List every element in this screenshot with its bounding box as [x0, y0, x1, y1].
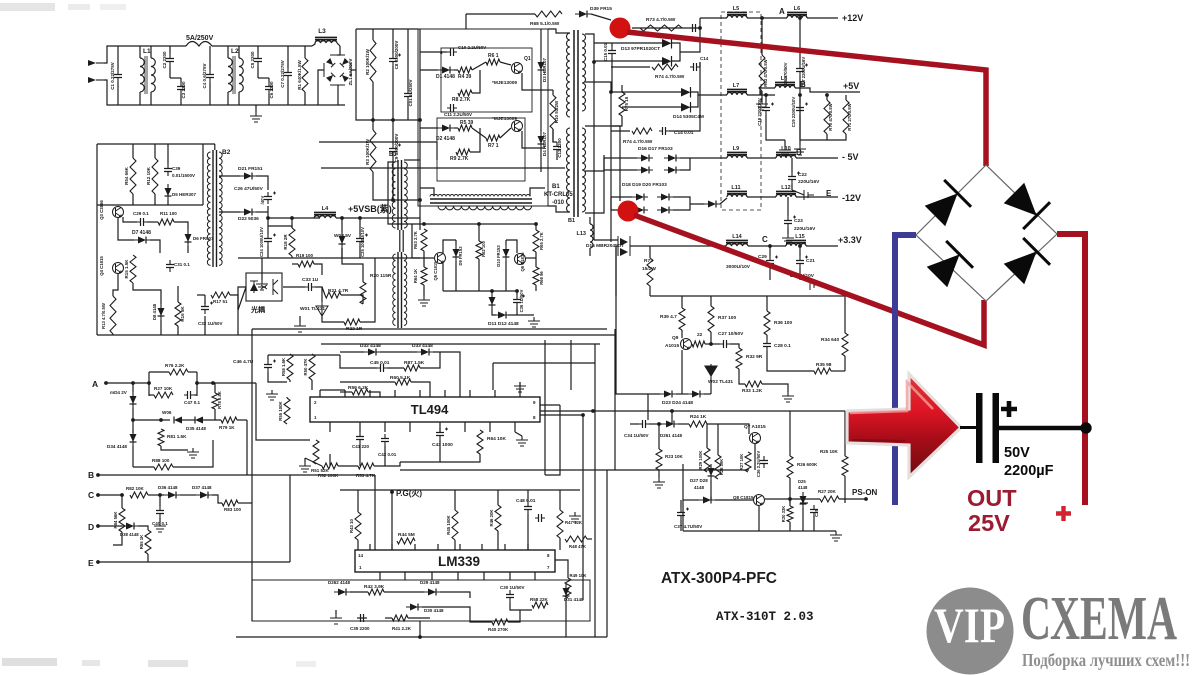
- resistor R26: [787, 456, 793, 478]
- wire: [150, 240, 160, 253]
- svg-text:R74 4.7/0.5W: R74 4.7/0.5W: [623, 139, 653, 145]
- red wire from node2 to bridge bottom: [634, 215, 984, 345]
- svg-text:R60 5.1K: R60 5.1K: [390, 375, 411, 381]
- svg-text:D16 D17 FR103: D16 D17 FR103: [638, 146, 673, 152]
- svg-text:-12V: -12V: [842, 193, 861, 203]
- capacitor C22b: [804, 190, 814, 200]
- wire: [227, 92, 229, 105]
- diode: [538, 136, 545, 144]
- wire: [341, 218, 343, 232]
- wire: [611, 196, 632, 198]
- svg-text:L11: L11: [731, 185, 740, 191]
- wire pin stub: [404, 572, 406, 580]
- resistor R70: [824, 100, 830, 134]
- wire pin stub: [329, 422, 331, 432]
- resistor R6: [486, 59, 500, 65]
- diode: [503, 249, 510, 257]
- capacitor C14: [659, 130, 669, 132]
- wire: [113, 274, 118, 296]
- svg-text:R62 100: R62 100: [481, 240, 486, 257]
- junction: [477, 222, 481, 226]
- wire: [256, 176, 268, 190]
- wire: [611, 197, 632, 210]
- svg-text:D8 4148: D8 4148: [152, 303, 157, 320]
- wire: [478, 259, 480, 291]
- drive stage enclosure inner A: [441, 48, 532, 112]
- inductor: [776, 156, 796, 159]
- diode D39: [579, 11, 587, 18]
- wire: [680, 520, 682, 531]
- svg-text:R27 20K: R27 20K: [818, 489, 837, 494]
- svg-text:R18 2R: R18 2R: [283, 234, 288, 250]
- transformer B1 core: [574, 30, 578, 217]
- wire D: [98, 525, 122, 527]
- wire: [789, 478, 791, 503]
- wire: [710, 296, 712, 306]
- svg-text:L10: L10: [781, 146, 790, 152]
- diode D29: [428, 589, 436, 596]
- wire: [337, 43, 340, 46]
- svg-text:L7: L7: [733, 83, 739, 89]
- wire r33 gnd: [762, 384, 788, 392]
- wire: [392, 156, 394, 200]
- wire: [491, 291, 493, 293]
- bridge diode bottom-left: [924, 241, 973, 290]
- wire: [133, 283, 161, 304]
- resistor R17: [211, 292, 230, 298]
- svg-text:L3: L3: [318, 28, 326, 35]
- inductor: [727, 156, 747, 159]
- bridge rectifier frame: [916, 165, 1057, 301]
- wire driver top bus: [412, 223, 536, 225]
- capacitor C35: [357, 617, 367, 619]
- svg-text:R82 10K: R82 10K: [126, 486, 145, 491]
- svg-text:L5: L5: [733, 6, 739, 12]
- capacitor C36: [763, 456, 765, 468]
- wire: [704, 393, 711, 395]
- svg-text:R2 100K/1W: R2 100K/1W: [365, 48, 370, 75]
- wire: [789, 411, 791, 456]
- wire: [340, 381, 395, 383]
- junction: [290, 216, 294, 220]
- svg-text:R53 4.7K: R53 4.7K: [356, 473, 376, 478]
- diode D22: [244, 209, 252, 216]
- wire q5 base: [412, 224, 434, 258]
- svg-text:R7 1: R7 1: [488, 143, 499, 149]
- wire: [337, 85, 339, 105]
- wire: [422, 607, 492, 622]
- AC plug prong L: [88, 60, 96, 66]
- svg-text:R35 98: R35 98: [816, 362, 832, 368]
- wire: [611, 43, 613, 46]
- wire secondary tap5: [585, 171, 604, 213]
- wire w02: [710, 380, 712, 394]
- wire: [540, 74, 542, 132]
- svg-text:L13: L13: [577, 231, 586, 237]
- resistor R81: [158, 429, 164, 446]
- resistor R13: [110, 296, 116, 334]
- ground: [779, 146, 791, 156]
- wire: [350, 591, 368, 593]
- diode: [130, 434, 137, 442]
- svg-text:+12V: +12V: [842, 13, 863, 23]
- resistor R10: [550, 95, 556, 129]
- svg-text:ATX-300P4-PFC: ATX-300P4-PFC: [661, 570, 777, 587]
- wire: [341, 248, 343, 258]
- wire: [527, 490, 529, 502]
- wire: [658, 470, 660, 478]
- wire: [791, 184, 793, 190]
- dashed enclosure output chokes: [721, 12, 761, 210]
- svg-text:VIP: VIP: [934, 597, 1005, 653]
- wire: [705, 343, 720, 345]
- svg-text:D22 5036: D22 5036: [238, 216, 259, 222]
- diode D6: [185, 234, 192, 242]
- svg-text:C35: C35: [814, 508, 819, 516]
- capacitor C11: [447, 107, 457, 109]
- resistor R79: [221, 417, 237, 423]
- wire: [359, 444, 361, 466]
- resistor R15: [130, 255, 136, 283]
- svg-text:A1015: A1015: [665, 343, 679, 349]
- resistor R47: [557, 510, 563, 538]
- svg-text:-010: -010: [552, 200, 565, 206]
- capacitor C34: [639, 423, 649, 425]
- svg-text:R42 3.9K: R42 3.9K: [364, 584, 385, 590]
- wire: [681, 296, 683, 308]
- junction: [358, 216, 362, 220]
- svg-text:C3 2200: C3 2200: [181, 81, 186, 99]
- junction: [418, 635, 422, 639]
- ground: [794, 145, 806, 155]
- wire: [621, 85, 623, 92]
- wire: [113, 532, 122, 545]
- svg-text:R19 100: R19 100: [296, 253, 314, 258]
- capacitor C39: [167, 164, 169, 176]
- svg-text:R16 5K: R16 5K: [180, 306, 185, 322]
- wire: [392, 120, 394, 144]
- wire: [139, 92, 141, 105]
- wire: [720, 198, 727, 204]
- wire pin stub: [419, 390, 421, 397]
- wire: [454, 490, 456, 510]
- wire: [311, 380, 313, 390]
- inductor: [776, 195, 796, 198]
- svg-text:C1 0.22/275V: C1 0.22/275V: [110, 62, 115, 90]
- wire branch y67: [611, 66, 650, 68]
- svg-text:A: A: [92, 379, 98, 389]
- wire: [761, 18, 763, 55]
- diode: [498, 312, 506, 319]
- svg-text:14: 14: [358, 553, 364, 558]
- svg-text:/40V: /40V: [260, 195, 265, 204]
- wire: [535, 252, 537, 267]
- wire startup right: [202, 144, 204, 205]
- capacitor C3: [180, 82, 182, 94]
- capacitor C6: [268, 82, 270, 94]
- resistor R59: [352, 389, 368, 395]
- diode: [453, 249, 460, 257]
- svg-text:C9 3300/200V: C9 3300/200V: [394, 134, 399, 163]
- svg-text:C5 2200: C5 2200: [250, 51, 255, 69]
- wire: [150, 92, 152, 105]
- ground: [256, 280, 268, 290]
- resistor R41: [392, 615, 408, 621]
- svg-text:L15: L15: [795, 234, 804, 240]
- wire pin stub: [489, 422, 491, 432]
- wire: [508, 307, 517, 315]
- inductor: [239, 58, 243, 92]
- red node dot 2: [618, 201, 639, 222]
- wire: [423, 285, 425, 296]
- wire opto out: [283, 286, 305, 288]
- ground: [250, 112, 262, 122]
- svg-text:5A/250V: 5A/250V: [186, 35, 214, 42]
- wire: [553, 129, 557, 142]
- wire +12V to L5: [700, 17, 727, 19]
- wire tl494 right2: [540, 414, 583, 416]
- svg-text:C31 0.1: C31 0.1: [174, 262, 190, 267]
- wire E: [98, 561, 148, 563]
- capacitor C28: [766, 339, 768, 351]
- wire opto in: [238, 287, 246, 310]
- junction: [158, 493, 162, 497]
- resistor R82: [130, 492, 148, 498]
- junction: [371, 118, 375, 122]
- wire: [374, 462, 400, 466]
- drive stage enclosure outer: [418, 29, 548, 206]
- wire: [472, 70, 480, 93]
- capacitor C45: [377, 367, 387, 369]
- wire: [230, 295, 238, 310]
- diode D27: [708, 468, 715, 476]
- wire: [132, 144, 134, 158]
- svg-text:PS-ON: PS-ON: [852, 488, 878, 497]
- resistor R32: [736, 348, 742, 369]
- wire: [455, 240, 457, 245]
- capacitor output plate right: [993, 393, 1000, 463]
- ground: [782, 234, 794, 244]
- wire: [196, 372, 198, 396]
- wire: [669, 62, 700, 131]
- wire: [333, 591, 335, 593]
- svg-text:R27 10K: R27 10K: [739, 454, 744, 471]
- junction: [592, 60, 596, 64]
- wire: [209, 46, 211, 70]
- svg-text:C22: C22: [798, 172, 807, 178]
- capacitor C7: [287, 68, 289, 80]
- wire startup mid: [97, 204, 203, 206]
- wire B3 core: [402, 230, 404, 252]
- svg-text:+5VSB(紫): +5VSB(紫): [348, 203, 392, 214]
- wire into drive box: [420, 51, 447, 53]
- svg-text:D3 HER107: D3 HER107: [542, 57, 547, 82]
- wire q5 c: [443, 240, 456, 253]
- diode D262: [338, 589, 346, 596]
- wire: [169, 46, 171, 54]
- svg-text:- 5V: - 5V: [842, 152, 859, 162]
- wire: [799, 268, 801, 280]
- svg-text:R73 4.7/0.5W: R73 4.7/0.5W: [646, 17, 676, 23]
- wire: [691, 343, 692, 345]
- diode D36: [168, 492, 176, 499]
- wire: [570, 340, 572, 390]
- wire A out: [197, 382, 256, 384]
- wire pin stub: [379, 572, 381, 580]
- svg-text:R55 100K: R55 100K: [278, 400, 283, 420]
- wire: [267, 246, 269, 258]
- wire: [492, 309, 496, 315]
- junction: [266, 216, 270, 220]
- svg-text:C27 10/50V: C27 10/50V: [718, 331, 744, 337]
- resistor R75: [619, 92, 625, 116]
- svg-text:D15 MBR2045CT: D15 MBR2045CT: [586, 243, 624, 249]
- wire: [500, 128, 511, 138]
- svg-text:R43 10: R43 10: [349, 518, 354, 532]
- diode D33: [421, 349, 429, 356]
- wire: [545, 405, 560, 475]
- wire: [671, 411, 673, 424]
- wire 5vsb: [268, 226, 292, 228]
- resistor R27c: [820, 496, 839, 502]
- wire A: [106, 382, 149, 384]
- wire -5V out: [796, 157, 838, 159]
- svg-text:B: B: [800, 80, 806, 89]
- ground: [830, 531, 842, 541]
- wire: [338, 465, 358, 467]
- capacitor C30: [509, 590, 511, 602]
- svg-text:R36 100: R36 100: [774, 320, 792, 326]
- wire: [706, 424, 708, 448]
- wire: [492, 363, 494, 390]
- junction: [390, 490, 394, 494]
- wire: [515, 432, 522, 436]
- svg-text:C2 2200: C2 2200: [162, 51, 167, 69]
- svg-text:Q6 C1815: Q6 C1815: [520, 252, 525, 272]
- svg-text:C8 3300/200V: C8 3300/200V: [394, 41, 399, 70]
- wire: [237, 310, 239, 335]
- transistor Q3: [113, 207, 124, 218]
- wire: [604, 158, 637, 170]
- transistor Q8: [754, 495, 765, 506]
- svg-text:D: D: [88, 522, 94, 532]
- wire: [322, 316, 344, 322]
- ground: [782, 392, 794, 402]
- resistor R84: [119, 508, 125, 532]
- wire pin stub: [369, 544, 371, 550]
- svg-text:R64 1K: R64 1K: [413, 269, 418, 283]
- wire: [802, 508, 804, 531]
- svg-text:D33 4148: D33 4148: [412, 343, 433, 349]
- junction: [798, 244, 802, 248]
- junction: [120, 493, 124, 497]
- wire: [465, 14, 467, 29]
- wire: [433, 352, 460, 397]
- wire right rail3: [606, 470, 608, 637]
- svg-text:B1: B1: [552, 184, 560, 190]
- wire -5V row: [680, 157, 727, 159]
- junction: [798, 16, 802, 20]
- resistor R22c: [692, 341, 705, 347]
- wire: [649, 423, 662, 425]
- resistor R8: [458, 90, 472, 96]
- wire: [268, 372, 287, 382]
- resistor R5: [458, 125, 472, 131]
- wire: [454, 69, 458, 71]
- wire left rail2: [251, 503, 253, 621]
- wire: [760, 88, 775, 95]
- resistor R87: [404, 365, 420, 371]
- resistor R4: [458, 67, 472, 73]
- wire pin stub: [391, 544, 393, 550]
- capacitor C40b: [159, 506, 161, 518]
- wire to opto: [238, 287, 246, 310]
- svg-text:C01 1U/250V: C01 1U/250V: [408, 79, 413, 106]
- svg-text:R11 100: R11 100: [160, 211, 177, 216]
- capacitor C29a: [769, 256, 771, 268]
- svg-text:Q1: Q1: [524, 56, 531, 62]
- wire long v5: [251, 329, 253, 503]
- junction: [422, 222, 426, 226]
- svg-text:D14 5305C4M: D14 5305C4M: [673, 114, 704, 120]
- diode D7: [138, 237, 146, 244]
- capacitor C1: [117, 70, 119, 82]
- wire: [289, 380, 291, 382]
- zener W06: [174, 417, 182, 424]
- wire: [180, 494, 196, 496]
- wire pson gnd bus: [683, 530, 836, 532]
- wire: [604, 157, 637, 159]
- wire: [267, 226, 269, 234]
- wire: [530, 188, 545, 196]
- wire: [454, 127, 458, 129]
- wire: [505, 261, 507, 291]
- wire primary top: [548, 29, 570, 33]
- wire d14b: [622, 106, 681, 108]
- svg-text:R76 2.2K: R76 2.2K: [165, 363, 185, 368]
- wire bottom bus: [236, 636, 607, 638]
- wire: [799, 115, 801, 140]
- wire: [340, 351, 364, 353]
- resistor R52: [322, 463, 338, 469]
- svg-text:D262 4148: D262 4148: [328, 580, 351, 585]
- wire: [404, 159, 420, 161]
- resistor R63: [759, 55, 765, 91]
- wire: [305, 458, 322, 466]
- wire: [436, 142, 438, 160]
- wire: [268, 94, 270, 105]
- wire: [118, 218, 134, 240]
- svg-text:4148: 4148: [798, 485, 808, 490]
- inductor: [140, 58, 144, 92]
- wire: [766, 335, 768, 339]
- wire: [237, 419, 247, 421]
- svg-text:R68 5.1/0.5W: R68 5.1/0.5W: [530, 21, 560, 27]
- ground: [299, 462, 311, 472]
- wire: [791, 158, 793, 172]
- wire: [500, 62, 511, 65]
- svg-text:D4 HER107: D4 HER107: [542, 131, 547, 156]
- wire: [589, 248, 591, 256]
- capacitor C33: [305, 286, 315, 288]
- svg-text:R10 51/2W: R10 51/2W: [554, 100, 559, 123]
- wire q8 c: [765, 498, 820, 500]
- junction: [159, 418, 163, 422]
- wire: [256, 211, 268, 213]
- capacitor C24: [267, 234, 269, 246]
- wire: [214, 383, 216, 393]
- svg-text:C: C: [88, 490, 94, 500]
